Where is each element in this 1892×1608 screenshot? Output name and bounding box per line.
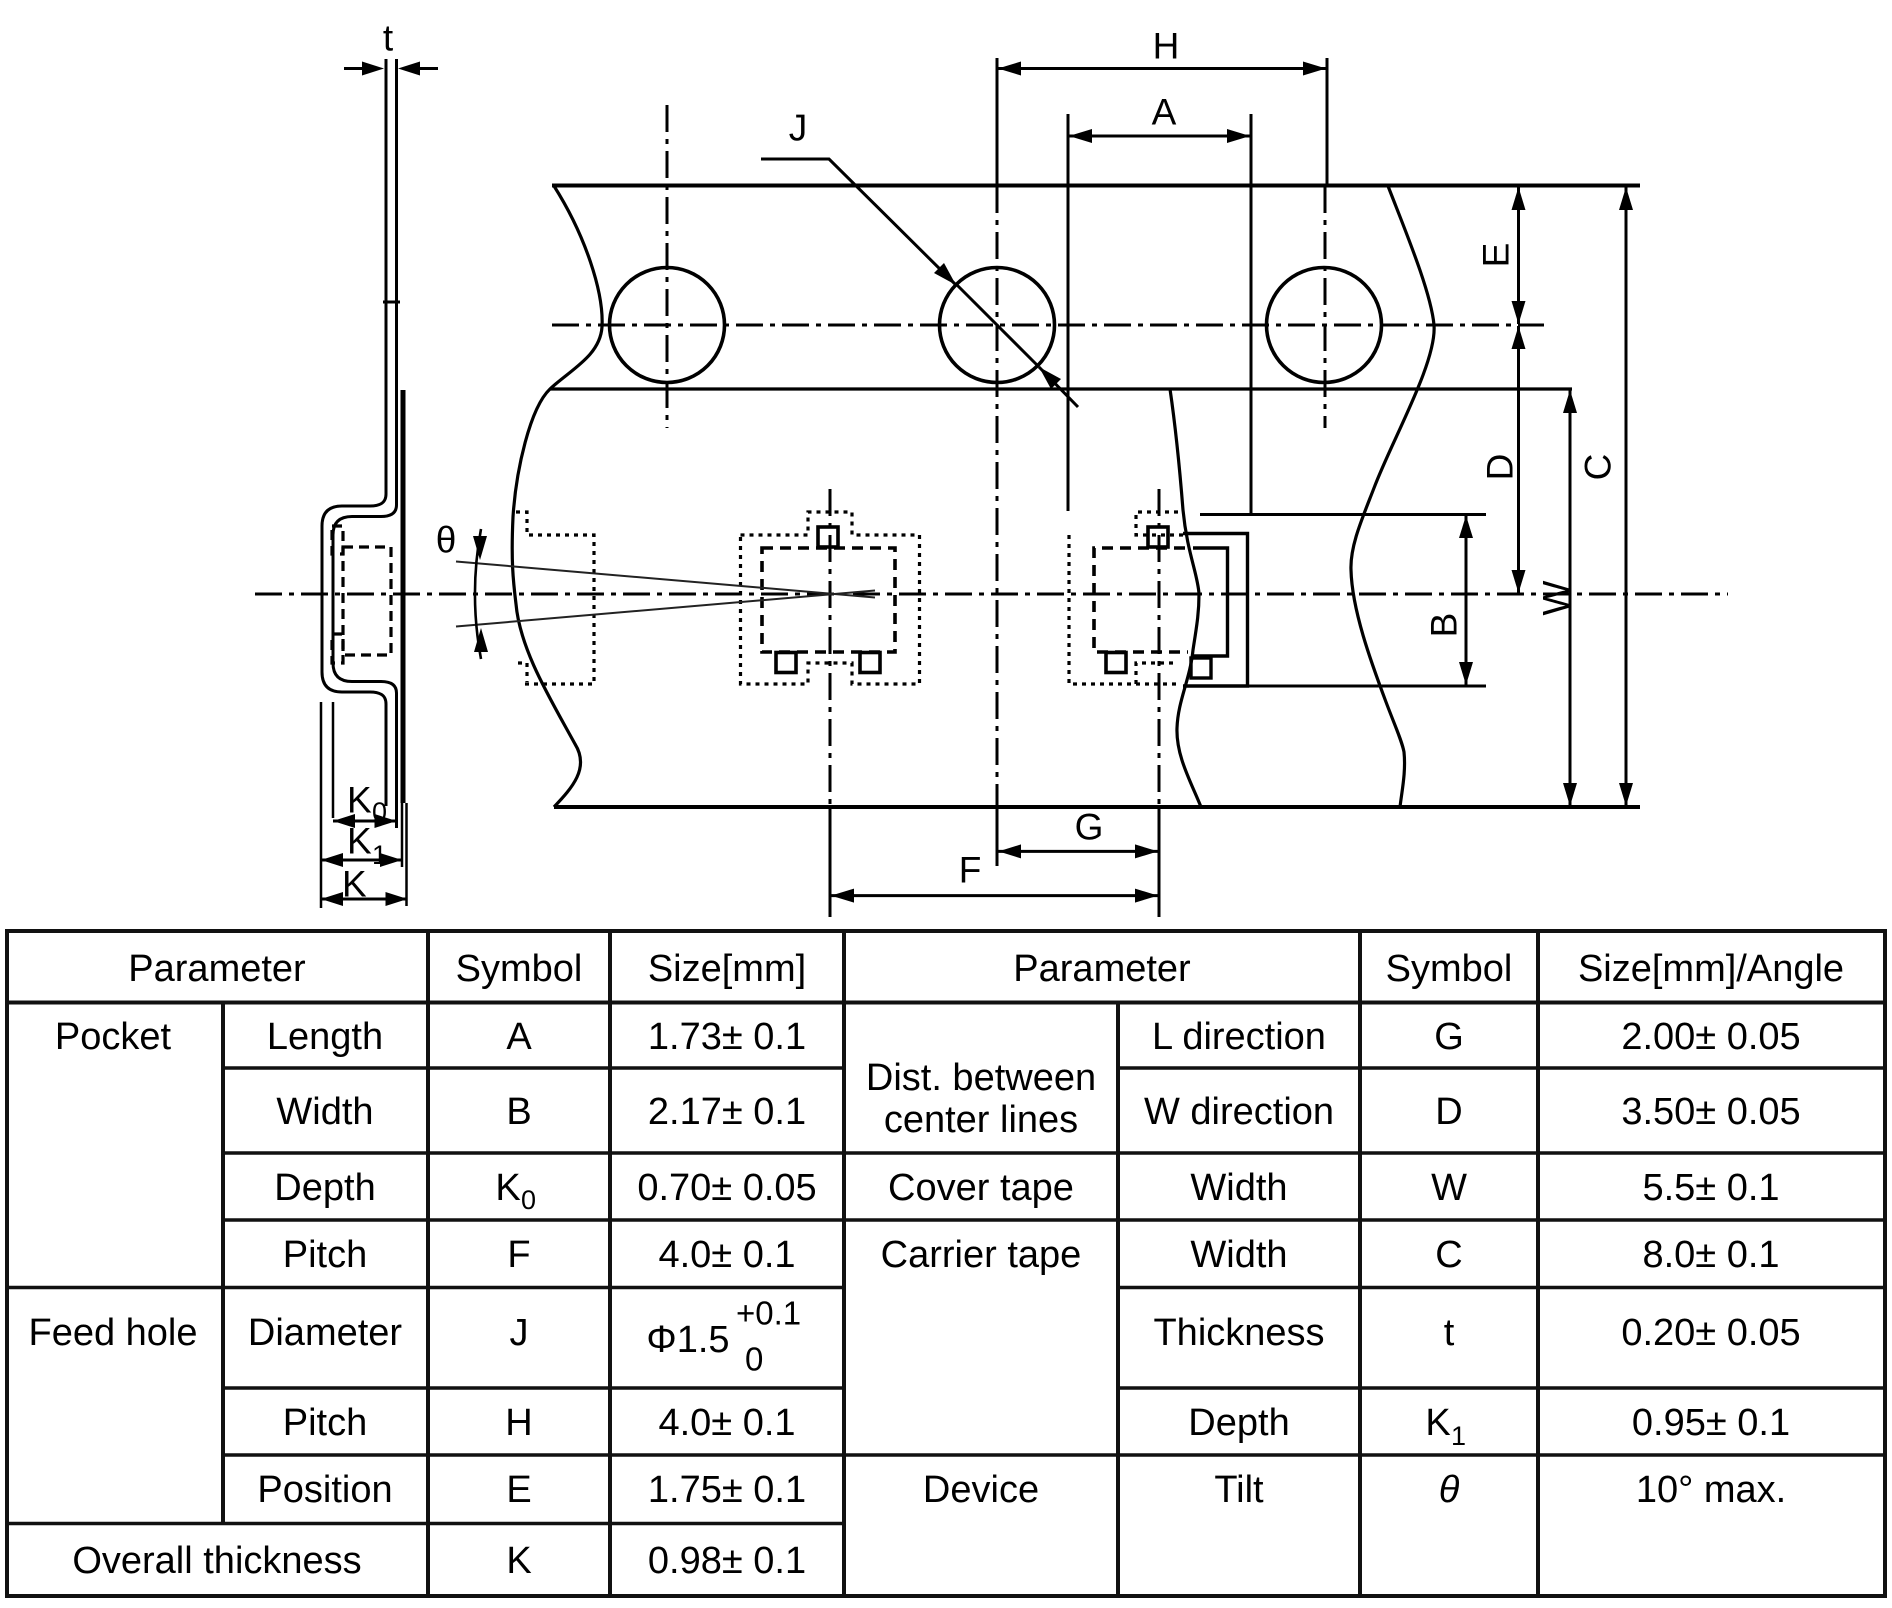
svg-text:B: B (1424, 613, 1465, 638)
table row line y=1523.5 (7, 1522, 844, 1526)
pocket 1 vertical center line (829, 489, 832, 806)
svg-text:C: C (1435, 1234, 1462, 1276)
pocket center line (horizontal dash-dot) (255, 593, 1728, 596)
svg-text:F: F (959, 850, 982, 891)
svg-text:center lines: center lines (884, 1099, 1078, 1141)
dimension F/G extension (pocket 1 center, below tape) (829, 806, 832, 917)
svg-text:0.70± 0.05: 0.70± 0.05 (637, 1167, 816, 1209)
K0 dimension reference line inner-left (332, 702, 335, 818)
svg-text:J: J (510, 1312, 529, 1354)
dimension G line (999, 850, 1159, 853)
feed hole 3 (1267, 268, 1382, 383)
svg-text:Width: Width (1190, 1167, 1287, 1209)
feed hole 3 vertical center line (1324, 186, 1327, 428)
svg-text:4.0± 0.1: 4.0± 0.1 (658, 1234, 795, 1276)
device 2 top lead (1148, 527, 1168, 547)
svg-text:4.0± 0.1: 4.0± 0.1 (658, 1402, 795, 1444)
device tilt line upper (456, 562, 875, 598)
svg-text:Symbol: Symbol (456, 948, 583, 990)
table column line x=428 (426, 931, 430, 1596)
svg-text:F: F (507, 1234, 530, 1276)
svg-text:1: 1 (372, 840, 387, 870)
svg-text:Carrier tape: Carrier tape (881, 1234, 1082, 1276)
dimension H extension line left (996, 58, 999, 186)
svg-text:K: K (1425, 1402, 1450, 1444)
carrier tape strip right surface (upper) (333, 59, 397, 828)
device tilt line lower (456, 591, 875, 627)
svg-text:K: K (342, 864, 367, 905)
svg-text:K: K (506, 1540, 531, 1582)
sprocket region line (550, 387, 1572, 390)
svg-text:3.50± 0.05: 3.50± 0.05 (1621, 1091, 1800, 1133)
svg-text:Width: Width (1190, 1234, 1287, 1276)
tape break wave middle (1170, 389, 1201, 807)
pocket 2 vertical center line (1158, 489, 1161, 806)
device 1 bottom lead left (776, 653, 796, 673)
table column line x=1118 (1116, 1003, 1120, 1597)
table outer border left (5, 929, 9, 1598)
svg-text:J: J (789, 108, 808, 149)
device 2 right part (solid) (1193, 548, 1228, 656)
feed hole center line (horizontal dash-dot) (552, 324, 1544, 327)
svg-text:Pocket: Pocket (55, 1016, 172, 1058)
svg-text:K: K (347, 821, 372, 862)
svg-text:Size[mm]/Angle: Size[mm]/Angle (1578, 948, 1844, 990)
svg-text:Pitch: Pitch (283, 1402, 367, 1444)
svg-text:A: A (1152, 92, 1177, 133)
svg-text:t: t (383, 18, 394, 59)
svg-text:D: D (1435, 1091, 1462, 1133)
svg-text:2.17± 0.1: 2.17± 0.1 (648, 1091, 806, 1133)
svg-text:1: 1 (1451, 1421, 1466, 1451)
svg-text:Φ1.5: Φ1.5 (646, 1319, 729, 1361)
table row line y=1388 (223, 1386, 844, 1390)
svg-text:t: t (1444, 1312, 1455, 1354)
device cross-section (dashed) in side view (332, 526, 391, 663)
svg-text:E: E (506, 1469, 531, 1511)
theta arc arrow upper (473, 536, 487, 560)
table outer border top (5, 929, 1887, 933)
svg-text:W: W (1431, 1167, 1467, 1209)
svg-text:A: A (506, 1016, 532, 1058)
device 2 lead (solid) (1191, 658, 1211, 678)
J diameter line through feed hole 2 (957, 285, 1039, 367)
svg-text:0: 0 (521, 1185, 536, 1215)
table row line y=1068 (223, 1066, 844, 1070)
table row line y=1287.5 (7, 1286, 844, 1290)
carrier tape strip left surface (upper) (322, 59, 386, 806)
feed hole 2 vertical center line (996, 186, 999, 806)
svg-text:Length: Length (267, 1016, 383, 1058)
table column line x=1538 (1536, 931, 1540, 1596)
K dimension (321, 898, 408, 901)
svg-text:L direction: L direction (1152, 1016, 1326, 1058)
svg-text:θ: θ (436, 520, 457, 561)
svg-text:0: 0 (372, 797, 387, 827)
table column line x=223 (221, 1003, 225, 1524)
K1 dimension (321, 859, 402, 862)
K0 dimension (333, 820, 397, 823)
feed hole 2 (940, 268, 1055, 383)
tape break wave left (512, 186, 602, 807)
dimension H line (998, 67, 1326, 70)
svg-text:1.73± 0.1: 1.73± 0.1 (648, 1016, 806, 1058)
svg-text:Symbol: Symbol (1386, 948, 1513, 990)
carrier tape bottom edge (554, 805, 1640, 809)
svg-text:D: D (1480, 454, 1521, 481)
pocket 2 outline right part (solid, cover tape removed) (1183, 534, 1248, 687)
svg-text:Parameter: Parameter (1013, 948, 1191, 990)
dimension A extension line right (1250, 114, 1253, 515)
dimension A extension line left (1067, 114, 1070, 511)
device 1 body (dashed) (762, 548, 895, 652)
table row line y=1455 (223, 1453, 844, 1457)
device 1 top lead (818, 527, 838, 547)
svg-text:Device: Device (923, 1469, 1039, 1511)
device 1 bottom lead right (860, 653, 880, 673)
feed hole 1 vertical center line (666, 105, 669, 428)
svg-text:W direction: W direction (1144, 1091, 1334, 1133)
svg-text:H: H (505, 1402, 532, 1444)
svg-text:H: H (1153, 26, 1180, 67)
dimension F/G extension (pocket 2 center, below tape) (1158, 806, 1161, 917)
svg-text:Thickness: Thickness (1153, 1312, 1324, 1354)
J diameter tail arrow (1039, 367, 1078, 407)
dimension G extension (feed hole 2 center, below tape) (996, 806, 999, 866)
svg-text:Tilt: Tilt (1214, 1469, 1264, 1511)
device 2 body left part (dashed) (1094, 548, 1188, 652)
svg-text:G: G (1434, 1016, 1464, 1058)
table outer border right (1883, 929, 1887, 1598)
svg-text:Width: Width (276, 1091, 373, 1133)
svg-text:0.95± 0.1: 0.95± 0.1 (1632, 1402, 1790, 1444)
svg-text:K: K (347, 780, 372, 821)
carrier tape top edge (552, 184, 1640, 188)
svg-text:Size[mm]: Size[mm] (648, 948, 806, 990)
device 2 bottom lead (1106, 653, 1126, 673)
svg-text:Pitch: Pitch (283, 1234, 367, 1276)
svg-text:0.20± 0.05: 0.20± 0.05 (1621, 1312, 1800, 1354)
svg-text:+0.1: +0.1 (736, 1295, 801, 1332)
svg-text:C: C (1578, 454, 1619, 481)
dimension B reference line top (1200, 513, 1486, 516)
svg-text:Parameter: Parameter (128, 948, 306, 990)
table column line x=1360 (1358, 931, 1362, 1596)
svg-text:0: 0 (745, 1341, 763, 1378)
svg-text:Diameter: Diameter (248, 1312, 402, 1354)
J leader line (761, 159, 956, 285)
svg-text:2.00± 0.05: 2.00± 0.05 (1621, 1016, 1800, 1058)
dimension D line (1517, 326, 1520, 593)
theta arc (475, 529, 481, 659)
table header bottom line (7, 1001, 1885, 1005)
cover tape lower extension lines (402, 803, 407, 906)
table column line x=610 (608, 931, 612, 1596)
strip break tick (383, 301, 400, 304)
svg-text:5.5± 0.1: 5.5± 0.1 (1642, 1167, 1779, 1209)
pocket 1 outline (dotted) (741, 512, 920, 684)
dimension W line (1569, 390, 1572, 806)
table row line y=1220 (223, 1218, 844, 1222)
svg-text:Feed hole: Feed hole (28, 1312, 197, 1354)
dimension A line (1069, 135, 1250, 138)
K dimension reference line outer-left (320, 702, 323, 908)
table column line x=844 (842, 931, 846, 1596)
table outer border bottom (5, 1594, 1887, 1598)
svg-text:Depth: Depth (1188, 1402, 1289, 1444)
cover tape (thick black) (401, 390, 406, 803)
svg-text:0.98± 0.1: 0.98± 0.1 (648, 1540, 806, 1582)
pocket 0 partial outline (dotted, cut by wave) (516, 512, 594, 684)
t dimension (344, 67, 438, 70)
table row line y=1153 (223, 1151, 844, 1155)
svg-text:Overall thickness: Overall thickness (72, 1540, 361, 1582)
svg-text:Dist. between: Dist. between (866, 1057, 1096, 1099)
dimension H extension line right (1326, 58, 1329, 186)
svg-text:G: G (1075, 807, 1104, 848)
svg-text:E: E (1476, 243, 1517, 268)
svg-text:10° max.: 10° max. (1636, 1469, 1786, 1511)
svg-text:Cover tape: Cover tape (888, 1167, 1074, 1209)
svg-text:W: W (1536, 580, 1577, 615)
svg-text:θ: θ (1439, 1469, 1460, 1511)
pocket 2 outline left part (dotted, cut by wave) (1069, 512, 1183, 684)
svg-text:8.0± 0.1: 8.0± 0.1 (1642, 1234, 1779, 1276)
dimension C line (1625, 187, 1628, 806)
svg-text:K: K (495, 1167, 520, 1209)
dimension B reference line bottom (1248, 685, 1487, 688)
svg-text:B: B (506, 1091, 531, 1133)
svg-text:1.75± 0.1: 1.75± 0.1 (648, 1469, 806, 1511)
feed hole 1 (610, 268, 725, 383)
tape break wave right (1351, 186, 1434, 807)
dimension E line (1517, 187, 1520, 324)
dimension B line (1465, 516, 1468, 686)
dimension F line (831, 894, 1158, 897)
theta arc arrow lower (474, 628, 488, 652)
svg-text:Position: Position (257, 1469, 392, 1511)
svg-text:Depth: Depth (274, 1167, 375, 1209)
